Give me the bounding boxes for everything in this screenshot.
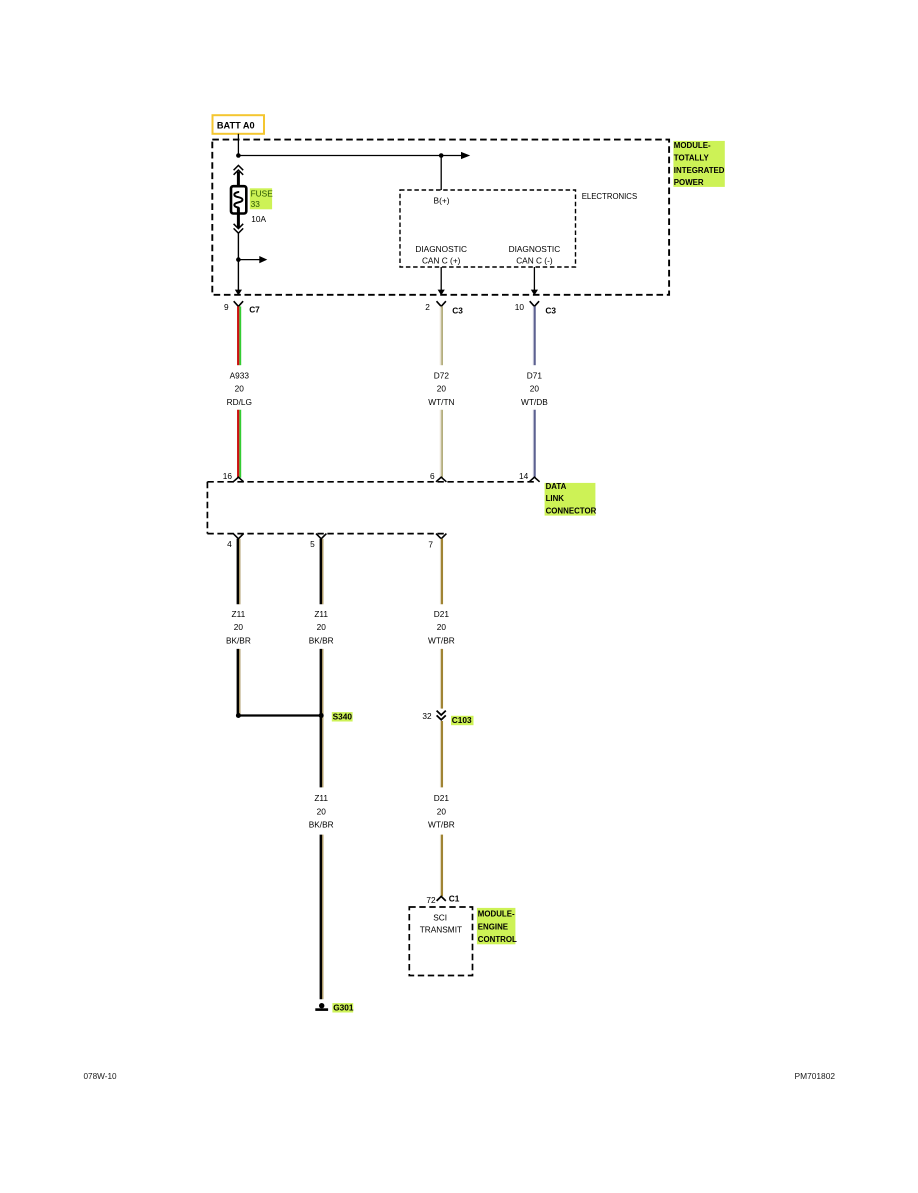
arrow fuse output continuing right [238,256,267,263]
svg-text:20: 20 [437,806,447,816]
label D71 20 WT/DB [521,370,548,407]
svg-text:078W-10: 078W-10 [84,1072,118,1081]
wire D72 WT/TN upper segment [441,306,443,365]
svg-text:20: 20 [437,384,447,394]
label D72 20 WT/TN [428,370,454,407]
node junction dot fuse output tap [236,257,241,262]
svg-text:20: 20 [235,384,245,394]
wire B(+) drop into electronics box [440,156,442,191]
arrow module exit pin 9 [235,290,242,296]
wire CAN C (+) exit [440,267,442,290]
module U2 SCI TRANSMIT dashed box [409,907,472,976]
svg-text:20: 20 [234,622,244,632]
wire D21 WT/BR upper segment [441,539,443,605]
connector C103 [422,711,473,726]
connector C3 pin 2 [425,301,463,315]
svg-text:TOTALLY: TOTALLY [674,153,710,162]
arrow module exit pin 2 [438,290,445,296]
svg-text:BK/BR: BK/BR [309,820,334,830]
svg-text:DATA: DATA [546,482,567,491]
svg-text:WT/TN: WT/TN [428,397,454,407]
connector DLC pin 4 [227,534,243,549]
arrow feed continuing right [461,152,470,159]
svg-text:MODULE-: MODULE- [674,141,711,150]
wire A933 RD/LG upper segment [238,306,240,365]
svg-text:C103: C103 [452,715,472,725]
svg-text:D71: D71 [527,370,543,380]
svg-text:DIAGNOSTIC: DIAGNOSTIC [509,244,561,254]
connector C3 pin 10 [515,301,557,315]
connector DLC dashed box [207,482,536,534]
svg-text:14: 14 [519,471,529,481]
svg-text:ELECTRONICS: ELECTRONICS [582,192,637,201]
svg-text:C3: C3 [452,305,463,315]
wire Z11 pin5 upper segment [321,539,323,605]
node junction dot at B(+) tap [439,153,444,158]
label MODULE-TOTALLY INTEGRATED POWER [673,141,724,187]
svg-text:LINK: LINK [546,494,565,503]
svg-text:WT/BR: WT/BR [428,820,455,830]
module U1 TIPM dashed box [212,140,669,295]
node BATT A0 label box [213,115,265,134]
splice S340 [236,712,353,722]
svg-text:PM701802: PM701802 [795,1071,836,1081]
wire CAN C (-) exit [533,267,535,290]
svg-text:C1: C1 [449,893,460,903]
svg-text:10: 10 [515,302,525,312]
wire D71 WT/DB upper segment [533,306,535,365]
svg-text:D21: D21 [434,609,450,619]
svg-text:CONTROL: CONTROL [478,935,517,944]
svg-text:72: 72 [426,895,436,905]
svg-text:Z11: Z11 [314,793,328,803]
svg-text:20: 20 [317,806,327,816]
connector DLC pin 5 [310,534,326,549]
svg-text:D72: D72 [434,370,450,380]
svg-text:20: 20 [437,622,447,632]
connector DLC pin 6 [430,471,446,482]
wire Z11 pin5 lower segment [321,835,323,1000]
svg-text:INTEGRATED: INTEGRATED [674,166,725,175]
connector C1 pin 72 [426,893,459,905]
label Z11 20 BK/BR left [226,609,251,646]
wire D21 WT/BR segment to C1 [441,835,443,897]
svg-text:9: 9 [224,302,229,312]
svg-text:7: 7 [428,539,433,549]
svg-text:BATT A0: BATT A0 [217,120,255,130]
svg-text:16: 16 [223,471,233,481]
svg-text:B(+): B(+) [434,195,450,205]
connector DLC pin 16 [223,471,244,482]
svg-text:2: 2 [425,302,430,312]
wire D21 WT/BR segment to C103 [441,649,443,709]
wire thick segment into fuse [237,172,240,193]
wire A933 RD/LG lower segment [238,410,240,478]
svg-text:BK/BR: BK/BR [309,635,334,645]
module U1 electronics inner dashed box [400,190,576,267]
svg-text:CAN C (+): CAN C (+) [422,255,461,265]
connector C7 pin 9 [224,301,260,314]
label Z11 20 BK/BR middle [309,609,334,646]
wire D21 WT/BR segment below C103 [441,721,443,787]
svg-text:CAN C (-): CAN C (-) [516,255,553,265]
svg-text:20: 20 [317,622,327,632]
wire horizontal feed to B(+) [238,155,461,157]
label Z11 20 BK/BR lower [309,793,334,830]
svg-text:WT/DB: WT/DB [521,397,548,407]
label FUSE 33 highlighted [250,188,273,209]
svg-text:POWER: POWER [674,178,704,187]
svg-text:D21: D21 [434,793,450,803]
fuse F33 body [231,186,246,213]
wire D72 WT/TN lower segment [441,410,443,478]
node junction dot at fuse feed [236,153,241,158]
wire Z11 pin5 middle segment [321,649,323,788]
connector DLC pin 14 [519,471,540,482]
svg-text:20: 20 [530,384,540,394]
svg-text:WT/BR: WT/BR [428,635,455,645]
svg-text:G301: G301 [333,1003,354,1013]
connector DLC pin 7 [428,534,446,550]
svg-text:4: 4 [227,539,232,549]
wire Z11 pin4 lower segment [238,649,240,714]
svg-text:33: 33 [251,199,261,209]
svg-text:BK/BR: BK/BR [226,635,251,645]
svg-text:C7: C7 [249,305,260,315]
svg-text:DIAGNOSTIC: DIAGNOSTIC [415,244,467,254]
svg-text:10A: 10A [251,214,266,224]
connector chevrons below fuse [234,224,244,233]
ground G301 [315,1003,354,1013]
svg-text:5: 5 [310,539,315,549]
svg-text:32: 32 [422,711,432,721]
svg-text:6: 6 [430,471,435,481]
wire thick segment below fuse [237,208,240,229]
label D21 20 WT/BR upper [428,609,455,646]
wire D71 WT/DB lower segment [533,410,535,478]
svg-text:Z11: Z11 [314,609,328,619]
wire Z11 pin4 upper segment [238,539,240,605]
label A933 20 RD/LG [227,370,252,407]
svg-text:A933: A933 [230,370,250,380]
wire from BATT A0 into module [237,134,239,156]
svg-text:RD/LG: RD/LG [227,397,252,407]
svg-text:Z11: Z11 [232,609,246,619]
wire fuse output down [237,233,239,290]
svg-text:FUSE: FUSE [251,188,274,198]
svg-text:ENGINE: ENGINE [478,923,508,932]
svg-text:CONNECTOR: CONNECTOR [546,506,597,515]
connector chevrons above fuse [234,165,244,174]
svg-text:MODULE-: MODULE- [478,910,515,919]
svg-text:S340: S340 [333,712,353,722]
svg-text:TRANSMIT: TRANSMIT [420,925,462,935]
label D21 20 WT/BR lower [428,793,455,830]
label DATA LINK CONNECTOR [545,482,597,516]
arrow module exit pin 10 [531,290,538,296]
svg-text:C3: C3 [545,305,556,315]
label MODULE-ENGINE CONTROL [477,908,517,944]
svg-text:SCI: SCI [433,912,447,922]
